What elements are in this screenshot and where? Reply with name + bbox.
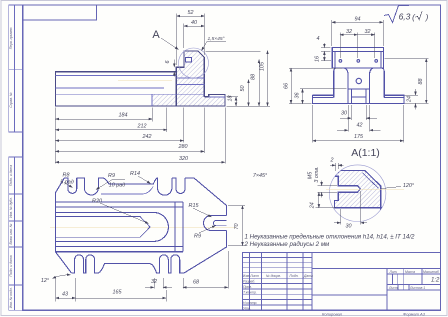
- svg-text:165: 165: [113, 290, 123, 296]
- M5 hole notch in protrusion: [186, 58, 192, 63]
- svg-text:R8: R8: [63, 173, 70, 179]
- svg-text:4: 4: [317, 36, 320, 42]
- top-left designation box: [23, 5, 97, 20]
- svg-text:280: 280: [178, 144, 188, 150]
- svg-text:5 рад: 5 рад: [60, 180, 73, 186]
- part outline: [55, 51, 225, 106]
- top dims 52/40: [176, 14, 178, 66]
- svg-text:2 Неуказанные радиусы 2 мм: 2 Неуказанные радиусы 2 мм: [244, 241, 331, 248]
- svg-text:Инв. № дубл.: Инв. № дубл.: [9, 197, 13, 218]
- svg-text:30: 30: [346, 224, 352, 230]
- left section horizontals: [242, 256, 312, 258]
- holes: [339, 60, 342, 63]
- svg-text:24: 24: [310, 202, 316, 209]
- svg-text:Разраб.: Разраб.: [243, 280, 255, 284]
- svg-text:Подп.: Подп.: [290, 274, 299, 278]
- 66 dim: [289, 67, 342, 69]
- svg-text:320: 320: [179, 156, 188, 162]
- svg-text:Инв. № подл.: Инв. № подл.: [9, 287, 13, 308]
- svg-text:): ): [425, 13, 429, 22]
- svg-text:Лит.: Лит.: [389, 270, 398, 274]
- svg-text:10 рад: 10 рад: [109, 183, 125, 189]
- svg-text:Подп. и дата: Подп. и дата: [9, 165, 13, 186]
- svg-text:88: 88: [418, 79, 424, 85]
- right section: [312, 268, 441, 270]
- svg-text:Подп. и дата: Подп. и дата: [9, 255, 13, 276]
- svg-text:24: 24: [407, 96, 413, 103]
- svg-text:Лист: Лист: [249, 274, 259, 278]
- svg-text:43: 43: [62, 291, 68, 297]
- svg-text:175: 175: [354, 134, 364, 140]
- 88 dim right: [385, 58, 429, 60]
- stem inner lines: [351, 89, 366, 104]
- svg-text:Пров.: Пров.: [243, 285, 252, 289]
- svg-text:105: 105: [260, 61, 266, 71]
- svg-text:52: 52: [188, 10, 194, 16]
- svg-text:Масса: Масса: [405, 270, 415, 274]
- inner boss: [344, 68, 374, 104]
- svg-text:Формат А3: Формат А3: [403, 312, 426, 317]
- svg-text:А(1:1): А(1:1): [351, 147, 380, 159]
- svg-text:А: А: [152, 29, 160, 41]
- svg-text:94: 94: [355, 17, 361, 23]
- svg-text:Перв. примен.: Перв. примен.: [9, 27, 13, 50]
- svg-text:6: 6: [165, 61, 171, 64]
- 16 dim: [321, 60, 331, 62]
- dim lines: [55, 118, 152, 120]
- 36 dim: [302, 89, 304, 104]
- svg-text:R20: R20: [92, 199, 102, 205]
- A leader: [161, 38, 179, 50]
- svg-text:1,5×45°: 1,5×45°: [207, 36, 224, 42]
- svg-text:50: 50: [240, 86, 246, 92]
- svg-text:70: 70: [234, 224, 240, 230]
- 32 / 68 bottom row: [153, 278, 155, 289]
- svg-text:R9: R9: [108, 173, 115, 179]
- svg-text:18: 18: [228, 96, 234, 102]
- svg-text:88: 88: [251, 74, 257, 80]
- outer neck: [334, 68, 385, 97]
- left section verticals: [248, 252, 250, 310]
- svg-text:№ докум.: № докум.: [266, 274, 281, 278]
- svg-text:Масштаб: Масштаб: [423, 270, 439, 274]
- central horizontals: [56, 201, 183, 203]
- 6 dim: [173, 60, 175, 68]
- svg-text:Н.контр.: Н.контр.: [243, 301, 257, 305]
- svg-text:Дата: Дата: [303, 274, 313, 278]
- base w/ wings: [313, 95, 405, 103]
- outer contour left/right: [56, 178, 72, 273]
- detail dims: [316, 163, 402, 225]
- 42 dim: [347, 105, 349, 132]
- svg-text:32: 32: [346, 29, 352, 35]
- svg-text:1 Неуказанные предельные откло: 1 Неуказанные предельные отклонения h14,…: [245, 234, 416, 241]
- right notch: [204, 216, 227, 231]
- left margin vertical texts: [9, 27, 13, 309]
- top bar: [332, 48, 383, 69]
- bottom edge with slots: [72, 255, 185, 273]
- inner slot with cone end: [56, 217, 150, 238]
- right vertical dims: [227, 96, 239, 98]
- front view dims: [289, 20, 429, 143]
- svg-text:Копировал: Копировал: [322, 312, 343, 317]
- svg-text:Т.контр.: Т.контр.: [243, 290, 257, 294]
- svg-text:Справ. №: Справ. №: [9, 92, 13, 108]
- svg-text:2: 2: [330, 158, 334, 164]
- svg-text:М5: М5: [308, 171, 314, 179]
- 43 / 165 bottom row: [55, 278, 57, 302]
- axis: [50, 226, 236, 228]
- detail circle indicator: [179, 48, 209, 78]
- extension lines: [54, 108, 56, 164]
- svg-text:R14: R14: [130, 171, 140, 177]
- axis line: [118, 80, 172, 82]
- leaders: [64, 183, 73, 188]
- svg-text:120°: 120°: [403, 183, 415, 189]
- 1.5x45 leader: [202, 42, 227, 51]
- svg-text:32: 32: [151, 279, 157, 285]
- plan view dims: [53, 176, 246, 302]
- title block texts: [243, 270, 439, 311]
- left margin graph column: [9, 5, 23, 310]
- svg-text:Утв.: Утв.: [243, 306, 251, 310]
- svg-text:Листов 1: Листов 1: [409, 286, 425, 290]
- svg-text:3 отв.: 3 отв.: [314, 166, 320, 182]
- 4 dim: [321, 47, 331, 49]
- svg-text:212: 212: [137, 123, 147, 129]
- svg-text:68: 68: [193, 280, 199, 286]
- roughness mark: [384, 6, 409, 23]
- svg-text:184: 184: [119, 113, 128, 119]
- 30 dim: [350, 105, 352, 120]
- svg-text:Лист: Лист: [388, 286, 398, 290]
- svg-text:66: 66: [284, 83, 290, 89]
- top edge with slots: [64, 178, 76, 194]
- cross verticals: [174, 202, 176, 252]
- svg-text:36: 36: [295, 93, 301, 99]
- 70 right: [228, 205, 245, 207]
- svg-text:7×45°: 7×45°: [253, 173, 268, 179]
- svg-text:242: 242: [142, 134, 152, 140]
- svg-text:12°: 12°: [41, 278, 50, 284]
- main view dimensions: [55, 14, 270, 164]
- top inner draft line: [101, 187, 153, 195]
- svg-text:(: (: [412, 13, 416, 22]
- svg-text:42: 42: [357, 123, 363, 129]
- svg-text:30: 30: [341, 111, 347, 117]
- svg-text:Взам. инв. №: Взам. инв. №: [9, 223, 13, 244]
- 24 dim right wing: [405, 94, 419, 96]
- svg-text:16: 16: [314, 56, 320, 62]
- central slot stadium: [56, 213, 169, 242]
- 175 dim: [312, 105, 314, 143]
- hatched regions: [152, 51, 225, 106]
- svg-text:R15: R15: [189, 203, 200, 209]
- svg-text:6,3: 6,3: [399, 12, 411, 22]
- svg-text:Изм.: Изм.: [243, 274, 250, 278]
- svg-text:40: 40: [191, 20, 197, 26]
- svg-text:32: 32: [365, 29, 371, 35]
- svg-text:1:2: 1:2: [431, 278, 440, 284]
- svg-text:R9: R9: [194, 234, 201, 240]
